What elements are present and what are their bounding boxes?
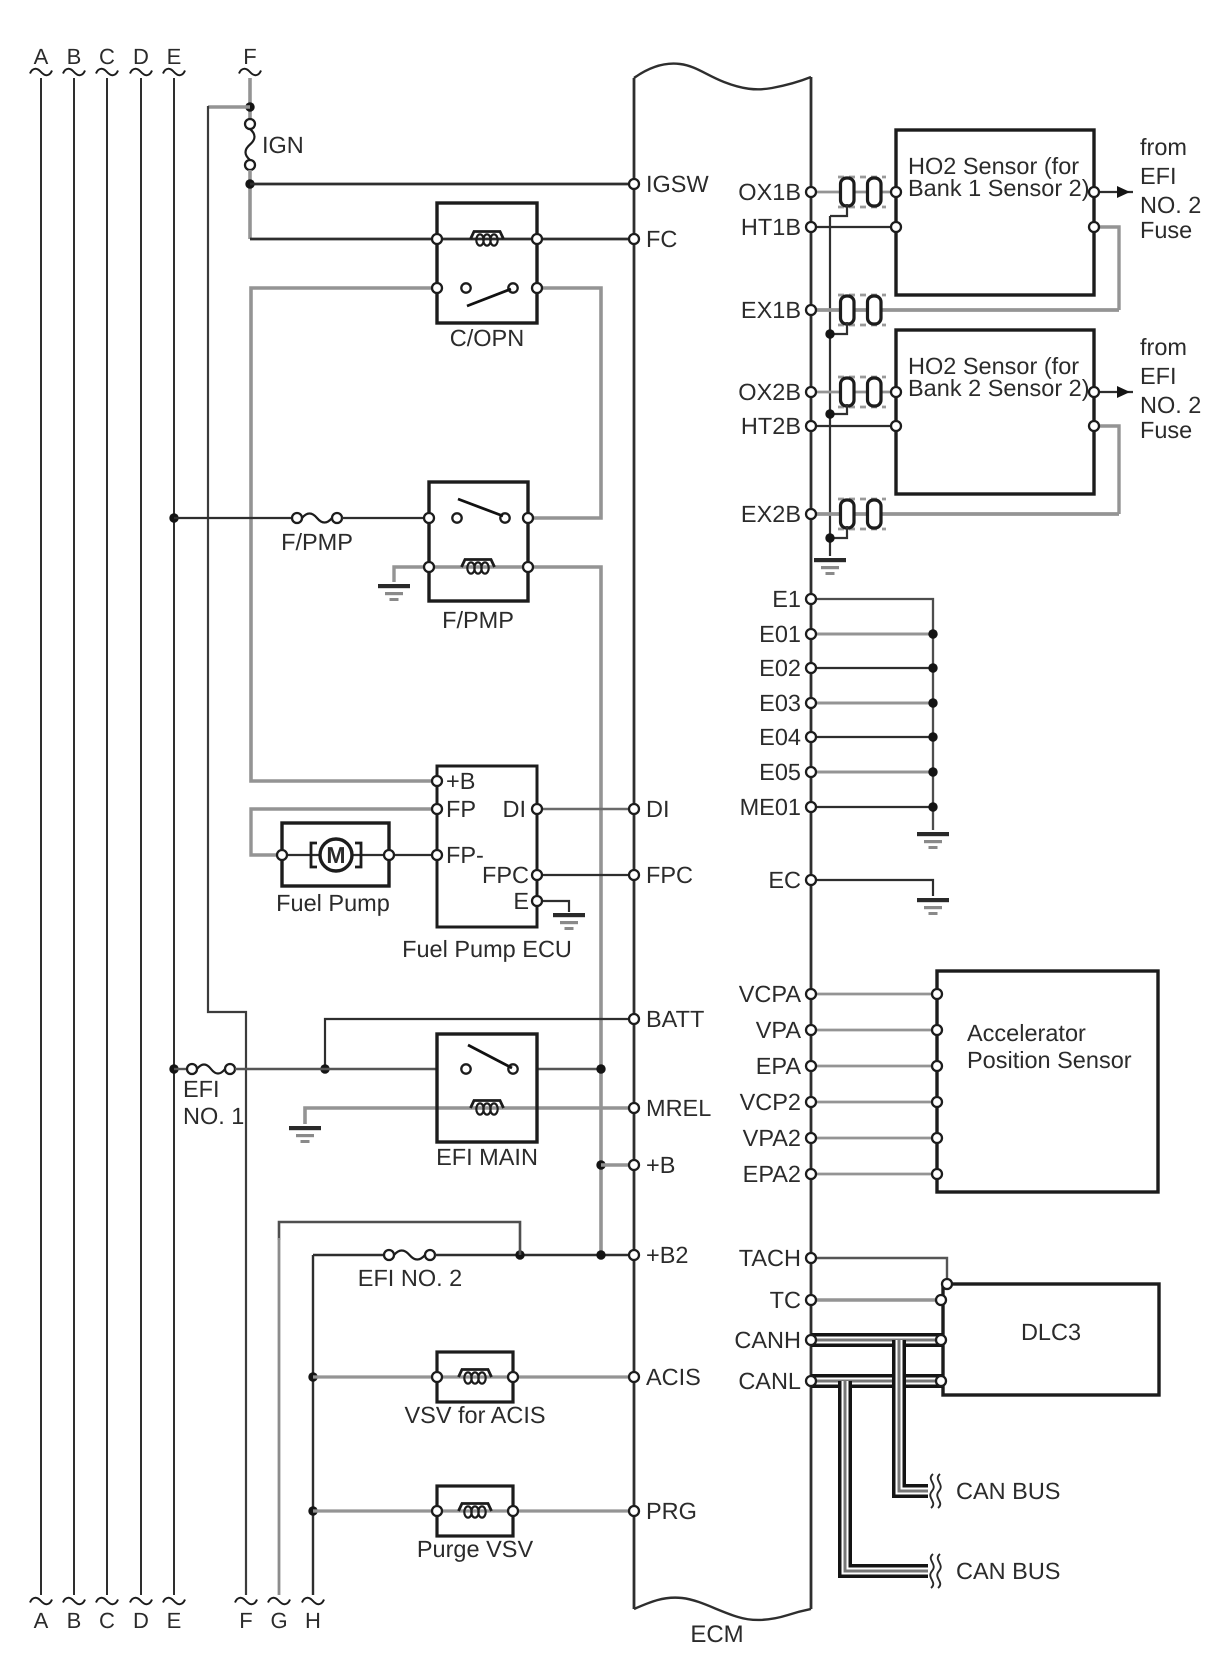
wire shield drain OX1B	[830, 204, 847, 216]
ECM pin FC	[629, 226, 677, 252]
relay EFI MAIN	[436, 1034, 538, 1170]
node drain OX2B	[825, 409, 834, 418]
node E rail / F-PMP fuse junction	[169, 513, 178, 522]
ECM pin MREL	[629, 1095, 711, 1121]
ECM pin EC	[768, 867, 816, 893]
wire HT1B return to EX1B	[1089, 222, 1119, 310]
wire E03	[811, 702, 933, 705]
shield OX2B	[838, 376, 886, 379]
relay C/OPN	[432, 203, 542, 351]
shield EX1B	[838, 294, 886, 297]
pin DLC3 CANH	[936, 1335, 946, 1345]
svg-text:+B: +B	[446, 768, 475, 794]
HO2 sensor bank2 box	[891, 330, 1094, 494]
wire IGSW	[250, 183, 634, 186]
rail C	[96, 44, 118, 1633]
break CAN BUS upper	[928, 1472, 945, 1510]
wire +B2 row right	[435, 1254, 634, 1256]
svg-text:OX1B: OX1B	[738, 179, 801, 205]
wire fuel pump internal row	[282, 854, 389, 856]
shield OX1B	[838, 176, 886, 179]
ECM pin BATT	[629, 1006, 704, 1032]
ECM pin VCPA	[739, 981, 816, 1007]
node H rail / PRG junction	[308, 1506, 317, 1515]
fuse EFI NO.2	[358, 1250, 462, 1291]
wire FP- (fuel pump right to ECU)	[389, 854, 437, 856]
ECM block	[634, 64, 811, 1648]
rail E	[163, 44, 185, 1633]
svg-text:F: F	[239, 1608, 252, 1633]
ECM pin EX2B	[741, 501, 816, 527]
wire F/PMP coil right to +B vertical bus	[528, 567, 601, 1255]
ECM pin E02	[759, 655, 816, 681]
node E02 bus junction	[928, 663, 937, 672]
wire E04	[811, 736, 933, 738]
svg-text:from: from	[1140, 134, 1187, 160]
wire C/OPN switch left to Fuel Pump ECU +B	[251, 288, 437, 781]
svg-text:E03: E03	[759, 690, 801, 716]
wire ACIS right	[513, 1375, 634, 1378]
wire HT2B	[811, 425, 896, 427]
svg-text:M: M	[326, 842, 345, 868]
svg-text:HT2B: HT2B	[741, 413, 801, 439]
label from EFI NO.2 Fuse (bank1)	[1140, 134, 1201, 243]
svg-text:EX2B: EX2B	[741, 501, 801, 527]
fuse IGN	[245, 119, 304, 170]
node E03 bus junction	[928, 698, 937, 707]
svg-text:HT1B: HT1B	[741, 214, 801, 240]
svg-text:EFI NO. 2: EFI NO. 2	[358, 1265, 462, 1291]
wire shield drain bus	[829, 216, 831, 556]
ground EC	[917, 898, 949, 902]
svg-text:BATT: BATT	[646, 1006, 704, 1032]
ECM pin +B2	[629, 1242, 688, 1268]
wire ME01	[811, 806, 933, 808]
svg-text:D: D	[133, 1608, 149, 1633]
svg-text:MREL: MREL	[646, 1095, 711, 1121]
svg-text:CAN BUS: CAN BUS	[956, 1478, 1060, 1504]
svg-text:from: from	[1140, 334, 1187, 360]
svg-text:EFI: EFI	[1140, 163, 1177, 189]
ECM pin IGSW	[629, 171, 709, 197]
node G riser junction	[515, 1250, 524, 1259]
svg-text:+B: +B	[646, 1152, 675, 1178]
wire E to ground	[537, 901, 569, 912]
svg-text:NO. 1: NO. 1	[183, 1103, 244, 1129]
ground Fuel Pump ECU E	[553, 913, 585, 917]
svg-text:Purge VSV: Purge VSV	[417, 1536, 534, 1562]
wire EX2B	[811, 512, 1119, 516]
wire FP loop (ECU FP to fuel pump left)	[251, 809, 437, 855]
ECM pin E01	[759, 621, 816, 647]
svg-text:D: D	[133, 44, 149, 69]
svg-text:E04: E04	[759, 724, 801, 750]
cable CANL branch to CAN BUS	[845, 1381, 930, 1571]
node drain EX2B	[825, 533, 834, 542]
svg-text:E: E	[513, 888, 529, 914]
svg-text:H: H	[305, 1608, 321, 1633]
svg-text:EX1B: EX1B	[741, 297, 801, 323]
svg-text:ME01: ME01	[740, 794, 801, 820]
node +B junction	[596, 1160, 605, 1169]
svg-text:EPA2: EPA2	[743, 1161, 801, 1187]
svg-text:F/PMP: F/PMP	[442, 607, 514, 633]
wire E01	[811, 633, 933, 636]
wire MREL (coil left to ground)	[305, 1108, 437, 1124]
node BATT riser junction	[320, 1064, 329, 1073]
wire HT2B return to EX2B	[1089, 421, 1119, 514]
wire +B2 row left (H rail corner to fuse)	[313, 1254, 384, 1256]
svg-text:CAN BUS: CAN BUS	[956, 1558, 1060, 1584]
wire VPA2	[811, 1137, 937, 1140]
svg-text:IGN: IGN	[262, 132, 304, 158]
wire EFI NO.1 fuse to EFI MAIN switch	[235, 1068, 437, 1070]
svg-text:VCPA: VCPA	[739, 981, 802, 1007]
accelerator position sensor box	[932, 971, 1158, 1192]
wire shield drain OX2B	[830, 404, 847, 414]
wire VPA	[811, 1029, 937, 1032]
wire OX1B	[811, 191, 896, 194]
wire PRG right	[513, 1509, 634, 1512]
svg-text:FP: FP	[446, 796, 476, 822]
node drain EX1B	[825, 329, 834, 338]
svg-text:Fuel Pump ECU: Fuel Pump ECU	[402, 936, 572, 962]
wire PRG left	[313, 1509, 437, 1512]
node E01 bus junction	[928, 629, 937, 638]
fuse F/PMP	[281, 513, 353, 555]
wire DI (ECU to ECM)	[537, 808, 634, 811]
wire F branch rail to bottom label F	[208, 106, 257, 1633]
wire VCP2	[811, 1101, 937, 1104]
node E rail / EFI NO.1 junction	[169, 1064, 178, 1073]
ground shield drain	[814, 558, 846, 562]
wire +B stub	[601, 1163, 634, 1167]
ECM pin ME01	[740, 794, 816, 820]
wire VCPA	[811, 993, 937, 996]
ECM pin ACIS	[629, 1364, 701, 1390]
ground E bus	[917, 832, 949, 836]
svg-text:E01: E01	[759, 621, 801, 647]
wire F below IGN fuse	[248, 170, 252, 239]
svg-text:C: C	[99, 1608, 115, 1633]
ECM pin HT1B	[741, 214, 816, 240]
rail G	[268, 1222, 520, 1633]
svg-text:DLC3: DLC3	[1021, 1319, 1081, 1345]
ECM pin VPA2	[743, 1125, 816, 1151]
svg-text:B: B	[67, 1608, 82, 1633]
ECM pin HT2B	[741, 413, 816, 439]
svg-text:A: A	[34, 1608, 49, 1633]
fuse EFI NO.1	[183, 1064, 244, 1129]
svg-text:E02: E02	[759, 655, 801, 681]
svg-text:PRG: PRG	[646, 1498, 697, 1524]
ECM pin E05	[759, 759, 816, 785]
wire E1	[811, 599, 933, 830]
ECM pin E1	[772, 586, 816, 612]
svg-text:EFI: EFI	[183, 1076, 220, 1102]
wire EPA	[811, 1065, 937, 1068]
svg-text:Bank 2 Sensor 2): Bank 2 Sensor 2)	[908, 375, 1090, 401]
svg-text:E1: E1	[772, 586, 801, 612]
svg-text:EFI: EFI	[1140, 363, 1177, 389]
wire EFI MAIN switch right to +B vertical bus	[537, 1068, 601, 1070]
svg-text:FPC: FPC	[646, 862, 693, 888]
VSV for ACIS	[404, 1352, 545, 1428]
svg-text:E: E	[167, 1608, 182, 1633]
svg-text:NO. 2: NO. 2	[1140, 392, 1201, 418]
svg-text:EFI MAIN: EFI MAIN	[436, 1144, 538, 1170]
node IGSW branch	[245, 179, 254, 188]
rail F top	[239, 44, 261, 119]
pin DLC3 TC	[936, 1295, 946, 1305]
ground F/PMP coil	[378, 584, 410, 588]
ECM pin EPA2	[743, 1161, 816, 1187]
wire shield drain EX2B	[830, 526, 847, 538]
rail A	[30, 44, 52, 1633]
pin DLC3 CANL	[936, 1376, 946, 1386]
svg-text:Fuse: Fuse	[1140, 417, 1192, 443]
svg-text:NO. 2: NO. 2	[1140, 192, 1201, 218]
wire shield drain EX1B	[830, 322, 847, 334]
wire EC	[811, 880, 933, 896]
wire MREL (coil right to ECM)	[537, 1106, 634, 1110]
ECM pin EPA	[756, 1053, 816, 1079]
node H rail / ACIS junction	[308, 1372, 317, 1381]
Fuel Pump ECU	[402, 766, 572, 962]
svg-text:DI: DI	[646, 796, 670, 822]
wire EPA2	[811, 1173, 937, 1176]
node E04 bus junction	[928, 732, 937, 741]
wire ACIS left	[313, 1375, 437, 1378]
svg-text:A: A	[34, 44, 49, 69]
wire HT1B	[811, 226, 896, 228]
ECM pin +B	[629, 1152, 675, 1178]
ECM pin CANH	[734, 1327, 816, 1353]
rail D	[130, 44, 152, 1633]
node +B bus / +B2 junction	[596, 1250, 605, 1259]
svg-text:CANL: CANL	[738, 1368, 801, 1394]
svg-text:VCP2: VCP2	[740, 1089, 801, 1115]
wire TACH	[811, 1258, 947, 1282]
svg-text:ECM: ECM	[690, 1621, 743, 1648]
ECM pin TC	[770, 1287, 816, 1313]
svg-text:DI: DI	[503, 796, 527, 822]
svg-text:E: E	[167, 44, 182, 69]
node E05 bus junction	[928, 767, 937, 776]
fuel pump	[276, 823, 394, 916]
svg-text:E05: E05	[759, 759, 801, 785]
wire FPC (ECU to ECM)	[537, 874, 634, 876]
ECM pin EX1B	[741, 297, 816, 323]
wire TC	[811, 1298, 941, 1301]
ECM pin CANL	[738, 1368, 816, 1394]
node ME01 bus junction	[928, 802, 937, 811]
cable CANH	[811, 1333, 943, 1347]
svg-text:F: F	[243, 44, 256, 69]
wire C/OPN switch right down to F/PMP switch	[528, 288, 601, 518]
svg-text:VPA2: VPA2	[743, 1125, 801, 1151]
ECM pin E03	[759, 690, 816, 716]
label from EFI NO.2 Fuse (bank2)	[1140, 334, 1201, 443]
HO2 sensor bank1 box	[891, 130, 1094, 295]
svg-text:ACIS: ACIS	[646, 1364, 701, 1390]
DLC3 box	[943, 1284, 1159, 1395]
wire F/PMP fuse to relay	[342, 517, 429, 519]
svg-text:C: C	[99, 44, 115, 69]
svg-text:CANH: CANH	[734, 1327, 801, 1353]
ground EFI MAIN coil	[289, 1126, 321, 1130]
svg-text:Fuse: Fuse	[1140, 217, 1192, 243]
wire E05	[811, 771, 933, 774]
ECM pin DI	[629, 796, 670, 822]
svg-text:TACH: TACH	[739, 1245, 801, 1271]
svg-text:G: G	[270, 1608, 287, 1633]
ECM pin VPA	[756, 1017, 816, 1043]
ECM pin VCP2	[740, 1089, 816, 1115]
shield EX2B	[838, 498, 886, 501]
svg-text:EPA: EPA	[756, 1053, 802, 1079]
wire E rail to EFI NO.1 fuse	[174, 1068, 187, 1070]
svg-text:EC: EC	[768, 867, 801, 893]
svg-text:FPC: FPC	[482, 862, 529, 888]
svg-text:VSV for ACIS: VSV for ACIS	[404, 1402, 545, 1428]
node +B bus / EFI MAIN junction	[596, 1064, 605, 1073]
svg-text:Position Sensor: Position Sensor	[967, 1047, 1132, 1073]
break CAN BUS lower	[928, 1552, 945, 1590]
Purge VSV	[417, 1486, 534, 1562]
svg-text:Fuel Pump: Fuel Pump	[276, 890, 390, 916]
arrow to EFI NO.2 fuse (bank2)	[1089, 386, 1133, 398]
wire FC row (F rail to C/OPN coil to ECM FC)	[250, 238, 634, 241]
wire E02	[811, 667, 933, 669]
ECM pin E04	[759, 724, 816, 750]
wire OX2B	[811, 391, 896, 394]
ECM pin OX1B	[738, 179, 816, 205]
svg-text:IGSW: IGSW	[646, 171, 709, 197]
pin DLC3 TACH	[942, 1279, 952, 1289]
svg-text:OX2B: OX2B	[738, 379, 801, 405]
ECM pin OX2B	[738, 379, 816, 405]
rail H	[302, 1255, 324, 1633]
wire E rail to F/PMP fuse	[174, 517, 292, 519]
svg-text:C/OPN: C/OPN	[450, 325, 524, 351]
ECM pin PRG	[629, 1498, 697, 1524]
arrow to EFI NO.2 fuse (bank1)	[1089, 186, 1133, 198]
svg-text:TC: TC	[770, 1287, 801, 1313]
svg-text:Bank 1 Sensor 2): Bank 1 Sensor 2)	[908, 175, 1090, 201]
ECM pin FPC	[629, 862, 693, 888]
ECM pin TACH	[739, 1245, 816, 1271]
svg-text:F/PMP: F/PMP	[281, 529, 353, 555]
relay F/PMP	[424, 482, 533, 633]
svg-text:FP-: FP-	[446, 842, 484, 868]
cable CANL	[811, 1374, 943, 1388]
svg-text:Accelerator: Accelerator	[967, 1020, 1086, 1046]
svg-text:VPA: VPA	[756, 1017, 802, 1043]
wire F/PMP coil left to ground	[394, 567, 429, 582]
svg-text:+B2: +B2	[646, 1242, 688, 1268]
cable CANH branch to CAN BUS	[899, 1340, 930, 1491]
node F/IGN junction	[245, 102, 254, 111]
wire EX1B	[811, 308, 1119, 312]
svg-text:B: B	[67, 44, 82, 69]
wire BATT	[325, 1019, 634, 1069]
svg-text:FC: FC	[646, 226, 677, 252]
rail B	[63, 44, 85, 1633]
